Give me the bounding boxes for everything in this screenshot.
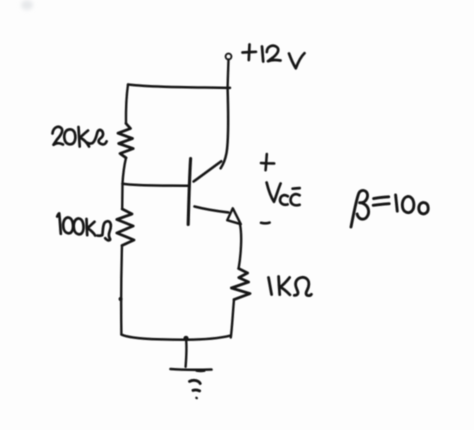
transistor Q1 emitter stroke: [195, 207, 229, 213]
resistor R1 20k zigzag: [118, 124, 133, 158]
resistor R2 100k zigzag: [117, 209, 134, 246]
ground: [171, 369, 212, 398]
wire base node to transistor base: [123, 184, 189, 186]
wire left drop to R1: [126, 85, 128, 124]
wire bottom rail: [121, 335, 230, 340]
transistor Q1 base bar: [188, 159, 190, 225]
wire top rail horizontal: [128, 85, 230, 88]
wire emitter to R3: [239, 225, 242, 269]
resistor R3 1k zigzag: [231, 269, 250, 300]
junction dot on left wire: [119, 298, 122, 301]
label 1kOhm: [269, 277, 312, 296]
transistor Q1 emitter arrowhead: [227, 208, 241, 224]
label 20kOhm: [53, 127, 107, 147]
wire R1 to base node: [123, 158, 127, 184]
label +12V: [243, 45, 305, 69]
faint smudge top-left: [21, 0, 33, 10]
label 100kOhm: [57, 213, 111, 240]
node +12V supply terminal: [226, 54, 232, 60]
label Vce: [267, 183, 300, 206]
wire base node down to R2: [121, 184, 124, 210]
wire from +12V node down to top rail: [226, 60, 229, 88]
wire R2 down to bottom rail: [120, 246, 123, 335]
wire ground stem: [184, 341, 187, 367]
label Vce plus sign: [261, 154, 274, 170]
node ground junction dot: [184, 336, 188, 340]
label Vce minus sign: [261, 221, 270, 224]
label beta = 100: [351, 190, 428, 227]
wire collector drop from top rail: [221, 88, 228, 169]
wire R3 to bottom rail: [231, 300, 234, 338]
transistor Q1 collector stroke: [194, 161, 222, 181]
